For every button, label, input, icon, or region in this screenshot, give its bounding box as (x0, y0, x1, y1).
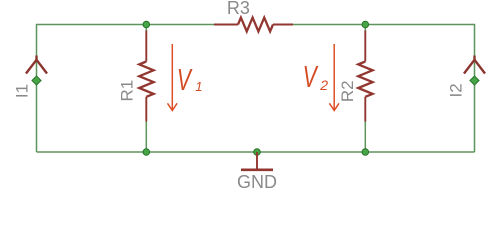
current source I2 node dot (470, 76, 479, 85)
resistor R1 (139, 31, 153, 122)
wire R2 branch upper (364, 25, 366, 32)
wire top-right segment (293, 25, 475, 153)
svg-text:R2: R2 (338, 80, 357, 102)
wire R2 branch lower (364, 121, 366, 152)
wire R1 branch upper (145, 25, 147, 32)
svg-text:GND: GND (237, 172, 277, 192)
ground GND symbol (241, 152, 273, 170)
svg-text:I1: I1 (13, 84, 32, 98)
current source I2 arrow (464, 56, 485, 74)
label V1 (177, 62, 203, 97)
svg-text:R1: R1 (118, 80, 137, 102)
resistor R3 (214, 18, 293, 32)
voltage arrow V1 (168, 44, 178, 111)
svg-text:1: 1 (195, 79, 202, 94)
svg-text:V: V (177, 62, 193, 97)
svg-text:R3: R3 (227, 0, 250, 18)
svg-text:2: 2 (319, 77, 328, 93)
junction dot bottom R2 (362, 149, 369, 156)
current source I1 arrow (26, 56, 47, 74)
junction dot top R2 (362, 21, 369, 28)
current source I1 node dot (32, 76, 41, 85)
wire R1 branch lower (145, 121, 147, 152)
svg-text:V: V (303, 59, 319, 94)
label V2 (303, 59, 328, 94)
wire top-left segment (37, 25, 215, 153)
junction dot bottom R1 (143, 149, 150, 156)
junction dot GND (254, 149, 261, 156)
junction dot top R1 (143, 21, 150, 28)
voltage arrow V2 (329, 44, 339, 111)
wire bottom rail (37, 151, 475, 153)
svg-text:I2: I2 (446, 83, 465, 97)
resistor R2 (358, 31, 372, 122)
